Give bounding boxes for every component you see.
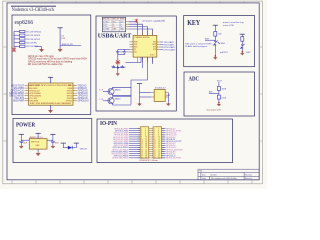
wire <box>21 134 29 141</box>
svg-text:12: 12 <box>145 139 147 141</box>
pin 13 U1 right <box>73 97 77 99</box>
svg-text:RTS: RTS <box>99 90 104 92</box>
svg-text:8: 8 <box>145 135 146 137</box>
wire <box>37 133 39 138</box>
svg-text:6: 6 <box>145 133 146 135</box>
ground <box>58 48 62 51</box>
svg-text:26: 26 <box>145 153 147 155</box>
resistor R9 <box>217 95 220 99</box>
svg-text:19: 19 <box>154 147 156 149</box>
resistor R4 <box>14 42 20 44</box>
wire EN net <box>60 45 81 47</box>
svg-text:EN/CH_PD: EN/CH_PD <box>62 44 73 46</box>
pin 11 U1 right <box>73 92 77 94</box>
wire <box>167 93 169 103</box>
power flag VCC (red star) <box>12 47 16 52</box>
wire <box>241 34 243 36</box>
svg-text:104: 104 <box>127 51 130 53</box>
svg-text:12: 12 <box>158 139 160 141</box>
svg-text:GPIO8-VIN-PIN15: GPIO8-VIN-PIN15 <box>112 158 129 160</box>
svg-text:220K: 220K <box>222 97 227 99</box>
svg-text:11: 11 <box>154 139 156 141</box>
svg-text:Date:: Date: <box>202 177 207 180</box>
connector P2 header body <box>153 127 162 158</box>
power symbol 5V <box>61 142 66 144</box>
svg-text:20: 20 <box>145 147 147 149</box>
pins U2 <box>130 31 161 63</box>
svg-text:D+: D+ <box>106 26 108 28</box>
resistor R3 <box>14 38 20 40</box>
svg-text:28: 28 <box>145 156 147 158</box>
net label D4 right row 5 <box>162 136 166 138</box>
net label G right row 14 <box>162 155 166 157</box>
ground <box>138 103 142 106</box>
svg-text:24: 24 <box>145 151 147 153</box>
svg-text:19: 19 <box>141 147 143 149</box>
ground <box>48 109 52 112</box>
svg-text:GPIO15: GPIO15 <box>66 101 73 103</box>
svg-text:16: 16 <box>158 143 160 145</box>
svg-text:1: 1 <box>154 128 155 130</box>
svg-text:4: 4 <box>145 130 146 132</box>
svg-text:R4 12K EN: R4 12K EN <box>26 42 37 44</box>
svg-text:press to reset the chip,: press to reset the chip, <box>223 21 244 24</box>
svg-text:D+: D+ <box>113 26 115 28</box>
net label G right row 7 <box>162 140 166 142</box>
wire U5 gnd <box>37 149 39 152</box>
section box IO-PIN <box>97 119 233 163</box>
net label D3 right row 4 <box>162 134 166 136</box>
ground <box>218 102 219 103</box>
svg-text:Title: Title <box>199 170 202 173</box>
capacitor C5 <box>118 52 127 55</box>
power symbol VCC <box>213 24 218 26</box>
svg-text:R1 12K GPIO15: R1 12K GPIO15 <box>26 31 42 33</box>
svg-text:14: 14 <box>145 141 147 143</box>
svg-text:24: 24 <box>158 151 160 153</box>
pin 1 U1 left <box>25 85 29 87</box>
svg-text:max input 3.2V: max input 3.2V <box>206 109 221 112</box>
capacitor C4 <box>116 52 120 53</box>
wire U1 GND <box>50 105 52 109</box>
transistor U2 CH340G body <box>133 35 157 57</box>
svg-text:CH340G SOP16: CH340G SOP16 <box>134 37 150 39</box>
pin 6 U1 left <box>25 97 29 99</box>
diode D1 <box>63 143 76 149</box>
svg-text:6: 6 <box>158 133 159 135</box>
section box POWER <box>13 119 92 163</box>
section box USB&UART <box>96 16 176 111</box>
svg-text:RST: press to reboot the ESP: RST: press to reboot the ESP <box>185 43 212 46</box>
ground <box>116 73 120 76</box>
net label D0 right row 1 <box>162 128 166 130</box>
net label D1 right row 2 <box>162 130 166 132</box>
net label D2 right row 3 <box>162 132 166 134</box>
svg-text:10: 10 <box>158 137 160 139</box>
ground <box>36 152 40 155</box>
svg-text:Nodemcu v3-CH340-sch: Nodemcu v3-CH340-sch <box>12 8 54 13</box>
pin 3 U1 left <box>25 90 29 92</box>
svg-text:esp8266: esp8266 <box>15 20 34 26</box>
connector J1 USB <box>102 17 125 32</box>
connector P1 header body <box>140 127 149 158</box>
svg-text:KEY: KEY <box>187 20 200 27</box>
section box ADC <box>184 72 255 116</box>
pin 12 U1 right <box>73 95 77 97</box>
svg-text:25: 25 <box>141 153 143 155</box>
capacitor C7 <box>19 141 23 145</box>
wire U1 VCC <box>50 77 52 83</box>
pin 4 U1 left <box>25 92 29 94</box>
net label D8 right row 11 <box>162 149 166 151</box>
svg-text:10: 10 <box>145 137 147 139</box>
pin 7 U1 left <box>25 100 29 102</box>
resistor R7 <box>241 37 244 42</box>
junction <box>117 67 119 69</box>
net label RTS# <box>160 46 163 48</box>
svg-text:TOUT: TOUT <box>217 80 223 82</box>
svg-text:V3: V3 <box>134 49 136 51</box>
power symbol VCC above U1 <box>48 76 53 78</box>
wire J1 to U2 <box>129 22 153 36</box>
pin 5 U1 left <box>25 95 29 97</box>
wire to ground <box>35 45 42 47</box>
power symbol 3V3 <box>58 27 63 29</box>
svg-text:GPIO15 must keep LOW at boot,: GPIO15 must keep LOW at boot, GPIO0 must… <box>28 58 87 61</box>
svg-text:ADC0-TOUT: ADC0-TOUT <box>11 84 24 87</box>
svg-text:27: 27 <box>141 156 143 158</box>
svg-text:14: 14 <box>158 141 160 143</box>
svg-text:pull RST: pull RST <box>220 52 228 54</box>
svg-text:3: 3 <box>154 130 155 132</box>
svg-text:XI XO: XI XO <box>150 55 155 57</box>
net label DTR# <box>160 49 163 51</box>
svg-text:UD+: UD+ <box>134 52 137 54</box>
wire <box>140 84 152 103</box>
svg-text:26: 26 <box>158 153 160 155</box>
svg-text:7: 7 <box>154 135 155 137</box>
pin 8 U1 right <box>73 85 77 87</box>
op-amp U1 ESP-12E module body <box>29 83 74 105</box>
svg-text:2: 2 <box>158 128 159 130</box>
svg-text:21: 21 <box>154 149 156 151</box>
svg-text:Number: Number <box>211 174 218 176</box>
power symbol <box>240 33 245 35</box>
svg-text:XC6206-3.3: XC6206-3.3 <box>155 88 167 90</box>
switch S2 <box>240 44 245 49</box>
ground <box>215 55 216 56</box>
svg-text:22: 22 <box>158 149 160 151</box>
wire <box>47 134 53 141</box>
svg-text:GND-PWR: GND-PWR <box>13 101 24 103</box>
net label D5 right row 8 <box>162 142 166 144</box>
svg-text:18: 18 <box>158 145 160 147</box>
svg-text:+5V power supply(USB): +5V power supply(USB) <box>142 19 166 22</box>
resistor R2 <box>14 34 20 36</box>
wire <box>218 99 220 102</box>
section box KEY <box>184 16 255 67</box>
transistor Q2 S8050 <box>103 97 131 105</box>
svg-text:Revision: Revision <box>245 174 252 176</box>
wire U2 bottom nets <box>131 57 153 104</box>
svg-text:ADC: ADC <box>189 77 200 83</box>
capacitor C7 <box>120 65 124 68</box>
svg-text:17: 17 <box>154 145 156 147</box>
wire cap chain <box>113 50 142 73</box>
transistor Q1 S8050 <box>103 87 131 95</box>
svg-text:4: 4 <box>158 130 159 132</box>
net label RXD <box>160 44 163 46</box>
svg-text:R232: R232 <box>152 44 156 46</box>
regulator U4 body <box>154 90 165 102</box>
net label TX right row 13 <box>162 153 166 155</box>
pins P1 P2 <box>138 129 165 158</box>
svg-text:DTR: DTR <box>99 99 104 101</box>
svg-text:S8050: S8050 <box>115 89 122 91</box>
svg-text:USB&UART: USB&UART <box>98 32 132 39</box>
svg-text:EN must pull HIGH to enable ch: EN must pull HIGH to enable chip <box>28 63 63 66</box>
resistor R6 <box>214 32 217 37</box>
pin 14 U1 right <box>73 100 77 102</box>
resistor R5 <box>14 45 20 47</box>
svg-text:ADC: ADC <box>209 91 214 94</box>
svg-text:13: 13 <box>154 141 156 143</box>
svg-text:23: 23 <box>154 151 156 153</box>
svg-text:RTS: RTS <box>153 47 156 49</box>
wire <box>241 41 243 44</box>
power symbol VIN <box>19 133 24 135</box>
svg-text:R2 12K GPIO0: R2 12K GPIO0 <box>26 35 41 37</box>
svg-text:VIN VOUT: VIN VOUT <box>31 141 40 143</box>
svg-text:R3 12K GPIO2: R3 12K GPIO2 <box>26 39 41 41</box>
wire <box>218 90 220 95</box>
wire <box>241 49 243 52</box>
wire ADC tap <box>209 93 219 95</box>
svg-text:18: 18 <box>145 145 147 147</box>
svg-text:23: 23 <box>141 151 143 153</box>
svg-text:8: 8 <box>158 135 159 137</box>
svg-text:VIN=5V: VIN=5V <box>80 149 88 151</box>
svg-text:4: 4 <box>103 29 104 31</box>
svg-text:100K: 100K <box>222 89 227 91</box>
svg-text:3: 3 <box>103 26 104 28</box>
svg-text:1: 1 <box>103 21 104 23</box>
svg-text:13: 13 <box>141 141 143 143</box>
net label TXD <box>160 41 163 43</box>
svg-text:27: 27 <box>154 156 156 158</box>
net label D6 right row 9 <box>162 144 166 146</box>
svg-text:21: 21 <box>141 149 143 151</box>
wire resistor stack bus <box>13 32 15 48</box>
svg-text:FLASH: hold to program: FLASH: hold to program <box>185 45 207 48</box>
svg-text:15: 15 <box>154 143 156 145</box>
power flag USB 5V <box>135 19 138 23</box>
net label 3V right row 15 <box>162 157 166 159</box>
svg-text:25: 25 <box>154 153 156 155</box>
title block <box>198 169 259 180</box>
svg-text:17: 17 <box>141 145 143 147</box>
svg-text:2: 2 <box>145 128 146 130</box>
net label 3V right row 6 <box>162 138 166 140</box>
svg-text:Size: Size <box>202 174 206 176</box>
svg-text:30: 30 <box>158 158 160 160</box>
svg-text:D+: D+ <box>120 26 122 28</box>
svg-text:File: nodemcu-v3-ch340.SchDoc: File: nodemcu-v3-ch340.SchDoc <box>211 178 237 180</box>
svg-text:5: 5 <box>154 133 155 135</box>
pin 10 U1 right <box>73 90 77 92</box>
svg-text:104: 104 <box>120 51 123 53</box>
ground <box>242 51 243 52</box>
svg-text:GPIO2 must keep HIGH at boot f: GPIO2 must keep HIGH at boot for flashin… <box>28 60 73 63</box>
svg-text:active LOW: active LOW <box>223 24 234 27</box>
power symbol VIN right <box>74 142 79 144</box>
svg-text:CON-2x15P 2.54mm: CON-2x15P 2.54mm <box>139 160 158 162</box>
ground <box>39 48 43 51</box>
svg-text:ADC0 pin max 3.3V input: ADC0 pin max 3.3V input <box>28 55 54 58</box>
wire <box>214 46 216 56</box>
net label RX right row 12 <box>162 151 166 153</box>
svg-text:IO-PIN: IO-PIN <box>100 121 118 127</box>
power symbol VCC <box>137 83 142 85</box>
ground <box>166 103 170 106</box>
switch S1 <box>213 40 220 45</box>
svg-text:GND-PWR: GND-PWR <box>29 101 38 103</box>
wire <box>214 36 216 40</box>
power flag (red star) <box>115 60 120 65</box>
capacitor C6 <box>111 65 115 68</box>
svg-text:Sheet of: Sheet of <box>245 177 252 180</box>
svg-text:GPIO15-IO: GPIO15-IO <box>78 101 90 103</box>
power symbol 3V3 <box>50 133 55 135</box>
svg-text:S8050: S8050 <box>115 99 122 101</box>
svg-text:POWER: POWER <box>16 121 35 128</box>
ground <box>19 145 23 148</box>
svg-text:15: 15 <box>141 143 143 145</box>
wire <box>218 82 220 87</box>
svg-text:11: 11 <box>141 139 143 141</box>
svg-text:GND: GND <box>36 145 41 147</box>
svg-text:ADC0-TOUT: ADC0-TOUT <box>29 84 40 87</box>
svg-text:DTR#-UART: DTR#-UART <box>164 48 176 51</box>
power symbol VCC top <box>36 132 41 134</box>
section box esp8266 <box>12 15 91 115</box>
svg-text:22: 22 <box>145 149 147 151</box>
svg-text:16: 16 <box>145 143 147 145</box>
svg-text:2: 2 <box>103 24 104 26</box>
wire EN chain <box>59 28 61 48</box>
pin 9 U1 right <box>73 87 77 89</box>
resistor R1 <box>14 31 20 33</box>
wire <box>214 25 216 31</box>
svg-text:9: 9 <box>154 137 155 139</box>
resistor R8 <box>217 86 220 90</box>
net label D7 right row 10 <box>162 146 166 148</box>
ground <box>51 145 55 148</box>
svg-text:GPIO2-3V-PORT: GPIO2-3V-PORT <box>166 158 182 160</box>
svg-text:20: 20 <box>158 147 160 149</box>
svg-text:28: 28 <box>158 156 160 158</box>
capacitor C8 <box>51 141 55 145</box>
pin 2 U1 left <box>25 87 29 89</box>
